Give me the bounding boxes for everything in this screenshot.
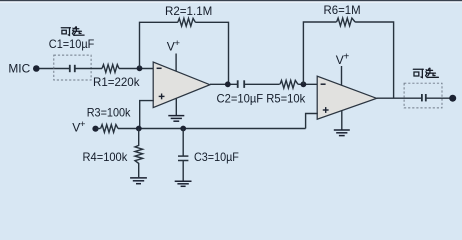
svg-text:C2=10µF R5=10k: C2=10µF R5=10k <box>217 93 306 106</box>
wire feedback up from node to R6 <box>303 22 336 84</box>
svg-text:C3=10µF: C3=10µF <box>194 151 239 164</box>
svg-text:R1=220k: R1=220k <box>93 76 140 89</box>
node MIC terminal dot <box>33 65 40 72</box>
wire optional capacitor to output terminal <box>426 97 450 99</box>
resistor R3 <box>101 125 118 133</box>
wire U1 noninverting input from bus <box>140 101 154 129</box>
op-amp U1 <box>153 62 210 108</box>
wire C2 to R5 <box>245 83 280 85</box>
node junction R3/R4/U1+ <box>136 126 142 132</box>
capacitor C1 (optional, in dashed box) <box>70 65 75 72</box>
wire U2 power pin <box>341 66 343 85</box>
node junction U1 output / R2 <box>225 81 231 87</box>
node V+ supply terminal dot <box>92 126 98 132</box>
wire MIC to C1 <box>40 68 70 70</box>
capacitor C3 (horizontal plates) <box>178 156 188 160</box>
node output terminal dot <box>449 95 456 102</box>
optional C1 dashed box <box>54 55 91 80</box>
wire C3 to ground <box>182 161 184 181</box>
node junction R5/R6/U2- <box>301 81 307 87</box>
wire bias bus R3 to U2 + <box>118 128 306 130</box>
wire U1 ground pin <box>175 98 177 115</box>
capacitor C4 optional output <box>422 94 426 101</box>
wire feedback up from node to R2 <box>140 22 178 68</box>
capacitor C2 <box>238 80 245 88</box>
label V+ lower left <box>72 119 86 134</box>
ground under U2 <box>334 130 350 136</box>
wire U2 noninverting input from bus <box>306 114 318 129</box>
label V+ for U1 <box>167 38 181 53</box>
svg-text:+: + <box>343 51 349 62</box>
resistor R5 <box>280 80 298 88</box>
optional output dashed box <box>404 83 442 108</box>
wire R6 down to U2 output <box>355 22 394 98</box>
resistor R2 <box>178 18 196 26</box>
resistor R1 <box>102 65 119 73</box>
op-amp U2 <box>317 76 376 119</box>
wire U2 output to optional capacitor <box>377 97 422 99</box>
svg-text:MIC: MIC <box>8 61 30 75</box>
wire U1 power pin <box>175 54 177 72</box>
wire R1 to U1 inverting input <box>119 68 154 70</box>
ground under R4 <box>130 178 147 184</box>
可 <box>61 27 70 29</box>
wire R5 to U2 inverting input <box>298 83 318 85</box>
svg-text:R2=1.1M: R2=1.1M <box>165 5 212 18</box>
svg-text:R6=1M: R6=1M <box>324 4 361 17</box>
wire C1 to R1 <box>75 68 102 70</box>
wire bus down to C3 <box>182 129 184 156</box>
ground under U1 <box>168 116 184 122</box>
svg-text:R3=100k: R3=100k <box>87 107 131 120</box>
svg-text:C1=10µF: C1=10µF <box>49 38 95 51</box>
svg-text:R4=100k: R4=100k <box>83 151 128 164</box>
label V+ for U2 <box>336 51 350 67</box>
svg-text:+: + <box>80 119 86 130</box>
可 <box>413 68 423 70</box>
resistor R4 (vertical) <box>135 129 143 178</box>
选 <box>428 68 429 70</box>
top border line <box>0 0 462 1</box>
node junction R1/R2/U1- <box>137 65 143 71</box>
label 可选 (optional) right <box>413 68 438 77</box>
resistor R6 <box>337 18 356 26</box>
wire R2 down to U1 output node <box>195 22 228 84</box>
ground under C3 <box>175 181 192 186</box>
选 <box>75 27 76 28</box>
wire U2 ground pin <box>341 111 343 130</box>
wire U1 output to C2 <box>210 83 237 85</box>
label 可选 (optional) top-left <box>61 27 84 36</box>
svg-text:+: + <box>174 38 180 49</box>
node junction bus/C3 <box>180 126 186 132</box>
wire V+ to R3 <box>96 128 100 130</box>
